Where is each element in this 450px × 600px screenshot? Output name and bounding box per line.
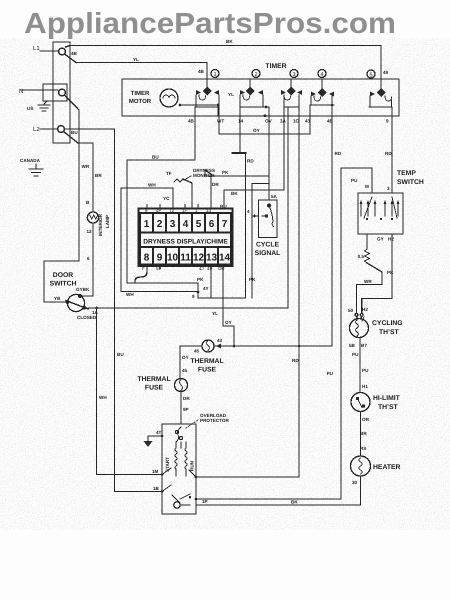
wire WH to motor [97, 308, 163, 475]
wire RD return [196, 476, 299, 478]
interior lamp IL1 [87, 212, 98, 223]
wire N lead [21, 89, 58, 91]
svg-text:AppliancePartsPros.com: AppliancePartsPros.com [24, 8, 396, 40]
terminal N [59, 89, 66, 96]
cycle signal switch [268, 204, 271, 207]
timer cam switch 1 [206, 79, 208, 88]
heater [351, 456, 371, 476]
wire OY timer link [219, 116, 310, 134]
switch blade L1 [65, 54, 77, 63]
overload protector symbol [175, 430, 178, 433]
wire cycling to hilimit [359, 338, 361, 393]
cycling thermostat [350, 319, 369, 338]
wire RD long to motor [298, 116, 300, 477]
cycle signal box [259, 200, 278, 238]
motor box [162, 424, 196, 514]
timer U1 box [122, 79, 399, 116]
cycling terminals [355, 313, 358, 316]
display board A1 [139, 209, 233, 267]
motor ground [148, 436, 162, 441]
wire board pin 13 down [210, 265, 212, 299]
wire RD long vertical [198, 153, 246, 298]
terminal block TB1 [53, 42, 70, 143]
timer cam number 1 [211, 70, 219, 78]
display board digits row 1 [144, 219, 228, 230]
wire door switch output YL [88, 307, 288, 309]
timer cam switch 5 [377, 88, 386, 97]
motor terminals right [189, 470, 196, 477]
wire WH left loop [121, 188, 173, 213]
wire temp switch left feed loop [196, 168, 372, 499]
timer cam switch 4 [321, 79, 323, 89]
temp switch contacts [360, 200, 363, 204]
centrifugal switch [174, 502, 180, 508]
scan noise overlay [0, 0, 1, 1]
timer cam number 3 [290, 70, 298, 78]
wire temp switch left exit with resistor [366, 234, 368, 249]
wire timer pin 4B to left loop [127, 116, 198, 298]
wire lamp to door switch [80, 223, 93, 296]
wire PK line [205, 176, 269, 298]
thermal fuse F2 [202, 340, 214, 352]
board bottom pin labels [142, 266, 225, 271]
wire timer motor bottom [180, 104, 218, 106]
hi-limit thermostat [351, 393, 370, 412]
wire heater return [196, 476, 361, 505]
timer cam switch 2 [249, 79, 251, 88]
wire RD jog [239, 116, 241, 153]
junction 9 [197, 291, 200, 294]
wire temp switch right exit [362, 234, 392, 313]
junction RD-fuse [298, 345, 301, 348]
wire YL to timer [76, 63, 207, 80]
timer cam number 2 [252, 70, 260, 78]
wire fuse to motor [180, 392, 182, 425]
wire BK drop to cam 5 [380, 46, 382, 90]
board top pin labels [145, 208, 211, 213]
wire BK top bus [66, 46, 382, 48]
board pin stub bottom 5P [159, 265, 161, 270]
junction on timer bottom edge [264, 114, 267, 117]
wire door switch loop [44, 261, 79, 302]
wire cycle signal left feed [252, 215, 259, 217]
wire hilimit to heater [360, 412, 362, 457]
junction OY-fuse [233, 345, 236, 348]
switch blade L2 [64, 132, 79, 144]
switch blade N [65, 95, 80, 110]
display board digits row 2 [144, 253, 231, 264]
timer cam number 5 [367, 70, 375, 78]
wire 3A to board BU pin [224, 116, 284, 213]
terminal L1 [59, 48, 66, 55]
wire timer 9 to temp switch [391, 116, 393, 193]
wire thermal fuse run [180, 345, 332, 347]
wire OV to cycle signal [268, 116, 270, 200]
board pin stubs top [147, 205, 198, 209]
temp switch box [358, 193, 403, 234]
timer cam switch 3 [290, 79, 292, 88]
wire WR neutral down [78, 110, 80, 261]
wire DR pin [204, 170, 206, 176]
door switch S1 [67, 294, 84, 311]
wire OY board to fuse [223, 265, 234, 347]
junction WH [95, 307, 98, 310]
thermal fuse F1 [175, 379, 188, 392]
wire L2 lead [40, 128, 57, 130]
wire BU to motor (left long) [65, 129, 163, 492]
terminal L2 [58, 126, 65, 133]
timer cam number 4 [318, 70, 326, 78]
neutral box [43, 84, 67, 101]
wire 4B to thermal fuse [331, 116, 333, 346]
board pin F hook [135, 265, 147, 284]
wire L1 lead [40, 50, 59, 52]
motor terminals left [161, 473, 164, 476]
wire 1C to door switch line [287, 116, 289, 308]
arrow on fuse wire [216, 344, 221, 349]
wire lamp feed [78, 143, 93, 212]
wire fuse down [179, 346, 181, 378]
